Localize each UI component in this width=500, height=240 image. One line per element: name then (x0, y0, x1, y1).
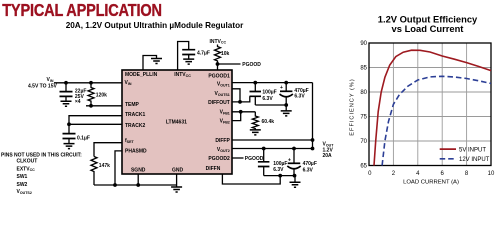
svg-text:vs Load Current: vs Load Current (392, 23, 464, 34)
wire TEMP (86, 105, 122, 107)
svg-text:90: 90 (360, 41, 367, 47)
pin label TRACK1 (125, 112, 145, 118)
svg-text:EFFICIENCY (%): EFFICIENCY (%) (350, 78, 356, 135)
ground for C3 (183, 59, 194, 64)
capacitor C6 100uF bottom (258, 149, 288, 176)
svg-text:75: 75 (360, 114, 367, 120)
chart y axis title (350, 78, 356, 135)
node junction dot TRACK tie (67, 122, 71, 126)
node junction dot PGOOD1 (216, 62, 220, 66)
curve 12V input blue dashed (382, 76, 491, 165)
resistor R4 60.4k (252, 112, 274, 130)
node junction dot DIFFN/bus (278, 174, 282, 178)
capacitor C1 22uF (60, 83, 87, 105)
node junction dot C7/bus (293, 174, 297, 178)
pin label DIFFOUT (208, 100, 230, 106)
chart frame (369, 43, 491, 166)
pin label PGOOD2 (208, 156, 230, 162)
svg-text:DIFFOUT: DIFFOUT (208, 100, 230, 106)
node VOUT output label (323, 142, 335, 159)
pin label VFB2 (220, 119, 230, 125)
svg-text:×4: ×4 (75, 99, 81, 105)
pin label VOUT2 (217, 147, 230, 153)
node junction dot R1/TEMP (89, 104, 93, 108)
svg-text:100µF: 100µF (273, 161, 287, 167)
svg-text:GND: GND (172, 167, 184, 173)
wire VFB2 tie (232, 112, 241, 121)
svg-text:PGOOD1: PGOOD1 (208, 73, 230, 79)
pin label MODE_PLLIN (125, 72, 158, 78)
wire bottom ground bus (94, 184, 177, 186)
pin label TEMP (125, 102, 140, 108)
svg-text:470µF: 470µF (303, 161, 317, 167)
svg-text:6.3V: 6.3V (262, 96, 273, 102)
resistor R3 10k (215, 45, 230, 71)
svg-text:85: 85 (360, 65, 367, 71)
legend 12V INPUT (440, 157, 490, 163)
wire DIFFP (232, 139, 313, 141)
svg-text:65: 65 (360, 163, 367, 169)
wire TRACK1 (69, 116, 122, 133)
svg-text:60.4k: 60.4k (262, 119, 275, 125)
pin label DIFFP (215, 138, 230, 144)
ground for MODE_PLLIN (151, 59, 162, 64)
svg-text:4.5V TO 15V: 4.5V TO 15V (28, 84, 57, 90)
wire PGOOD1 net (218, 63, 241, 65)
pin label PHASMD (125, 148, 147, 154)
legend 5V INPUT (440, 147, 487, 153)
node VIN input label (28, 77, 57, 89)
chart x axis title (403, 179, 459, 185)
wire VOUTS1 (232, 89, 240, 102)
svg-text:SW1: SW1 (17, 174, 28, 180)
pin label fSET (125, 138, 134, 144)
svg-text:PGOOD: PGOOD (242, 62, 261, 68)
svg-text:20A, 1.2V Output Ultrathin µMo: 20A, 1.2V Output Ultrathin µModule Regul… (66, 21, 244, 30)
node junction dot rail2/C6 (262, 147, 266, 151)
resistor R2 147k (91, 157, 110, 186)
IC U1 LTM4631 body (122, 70, 232, 174)
node junction dot rail2/C7 (292, 147, 296, 151)
net label PGOOD top (242, 62, 261, 68)
svg-text:PINS NOT USED IN THIS CIRCUIT:: PINS NOT USED IN THIS CIRCUIT: (1, 152, 82, 158)
wire VFB1 (232, 111, 255, 113)
wire top cap ground bus (255, 105, 286, 111)
section header TYPICAL APPLICATION (2, 1, 162, 21)
wire PHASMD (115, 151, 122, 185)
chart x labels (368, 171, 495, 177)
svg-text:10k: 10k (221, 51, 230, 57)
ground for C1 (61, 101, 72, 106)
svg-text:TRACK2: TRACK2 (125, 123, 145, 129)
svg-text:DIFFP: DIFFP (215, 138, 230, 144)
capacitor C3 4.7uF (182, 50, 210, 59)
svg-text:4.7µF: 4.7µF (197, 50, 210, 56)
svg-text:LTM4631: LTM4631 (166, 120, 187, 126)
pin label GND (172, 167, 184, 173)
svg-text:TRACK1: TRACK1 (125, 112, 145, 118)
wire vout tie vertical (312, 83, 314, 149)
node junction dot DIFFP/tie (311, 138, 315, 142)
pin label VOUT1 (217, 81, 230, 87)
chart title (378, 14, 478, 35)
node junction dot C5 lead (284, 103, 288, 107)
wire SGND pin (137, 174, 139, 185)
chart gridlines (369, 43, 491, 166)
capacitor C7 470uF bottom polarized (287, 149, 317, 176)
wire GND pin (176, 174, 178, 187)
svg-text:147k: 147k (99, 163, 110, 169)
svg-text:6.3V: 6.3V (303, 167, 314, 173)
pin label VFB1 (220, 109, 230, 115)
node junction dot VIN/R1 (89, 81, 93, 85)
svg-text:20A: 20A (323, 153, 333, 159)
node junction dot PHASMD/bus (113, 183, 117, 187)
curve 5V input red (374, 50, 491, 165)
svg-text:DIFFN: DIFFN (206, 166, 221, 172)
node junction dot rail/C4 (253, 81, 257, 85)
svg-text:PGOOD2: PGOOD2 (208, 156, 230, 162)
wire DIFFN (222, 174, 280, 184)
svg-text:LOAD CURRENT (A): LOAD CURRENT (A) (403, 179, 459, 185)
wire PGOOD2 net (232, 157, 244, 159)
svg-text:10: 10 (488, 171, 495, 177)
svg-text:TYPICAL APPLICATION: TYPICAL APPLICATION (2, 1, 162, 21)
wire MODE_PLLIN to ground (143, 56, 157, 71)
pin label VOUTS1 (214, 91, 229, 97)
pin label PGOOD1 (208, 73, 230, 79)
svg-text:5V INPUT: 5V INPUT (459, 147, 486, 153)
svg-text:SW2: SW2 (17, 182, 28, 188)
note pins not used (1, 152, 82, 195)
wire TRACK2 (69, 123, 122, 125)
resistor R1 120k (88, 83, 107, 106)
svg-text:PGOOD: PGOOD (245, 156, 264, 162)
wire bottom cap ground bus (264, 176, 295, 182)
svg-text:70: 70 (360, 139, 367, 145)
capacitor C4 100uF top (250, 83, 277, 105)
wire INTVCC pin up (178, 42, 189, 71)
svg-text:CLKOUT: CLKOUT (17, 159, 38, 165)
ground for R4 (250, 130, 261, 135)
pin label SGND (131, 167, 146, 173)
node junction dot VOUTS1/DIFFOUT (238, 100, 242, 104)
wire VIN to IC (54, 82, 122, 84)
ground for C2 (64, 144, 75, 149)
schematic subtitle (66, 21, 244, 30)
node junction dot VFB tie (239, 110, 243, 114)
wire DIFFOUT (232, 96, 250, 102)
svg-text:+: + (288, 157, 291, 163)
net label INTVCC top (210, 39, 227, 45)
svg-text:TEMP: TEMP (125, 102, 140, 108)
svg-text:100µF: 100µF (262, 89, 276, 95)
pin label VIN (125, 80, 132, 86)
svg-text:PHASMD: PHASMD (125, 148, 147, 154)
pin label DIFFN (206, 166, 221, 172)
capacitor C5 470uF top polarized (280, 83, 309, 105)
pin label INTVCC (174, 72, 191, 78)
net label PGOOD bottom (245, 156, 264, 162)
svg-text:SGND: SGND (131, 167, 146, 173)
capacitor C2 0.1uF (63, 134, 90, 144)
svg-text:+: + (280, 85, 283, 91)
svg-text:120k: 120k (96, 93, 107, 99)
node junction dot VIN/C1 (64, 81, 68, 85)
wire VOUT2 rail (232, 148, 313, 150)
pin label TRACK2 (125, 123, 145, 129)
ground for bottom caps (290, 182, 301, 187)
ground for top caps (281, 111, 292, 116)
wire fSET (94, 143, 122, 157)
chart y labels (360, 41, 367, 170)
svg-text:80: 80 (360, 90, 367, 96)
svg-text:MODE_PLLIN: MODE_PLLIN (125, 72, 158, 78)
node junction dot VOUT2/tie (311, 147, 315, 151)
svg-text:12V INPUT: 12V INPUT (459, 157, 490, 163)
wire VOUT1 rail (232, 82, 313, 84)
ground for GND pin (171, 187, 182, 192)
svg-text:0.1µF: 0.1µF (77, 135, 90, 141)
node junction dot rail/C5 (284, 81, 288, 85)
svg-text:6.3V: 6.3V (273, 167, 284, 173)
node junction dot SGND/bus (136, 183, 140, 187)
svg-text:6.3V: 6.3V (294, 94, 305, 100)
